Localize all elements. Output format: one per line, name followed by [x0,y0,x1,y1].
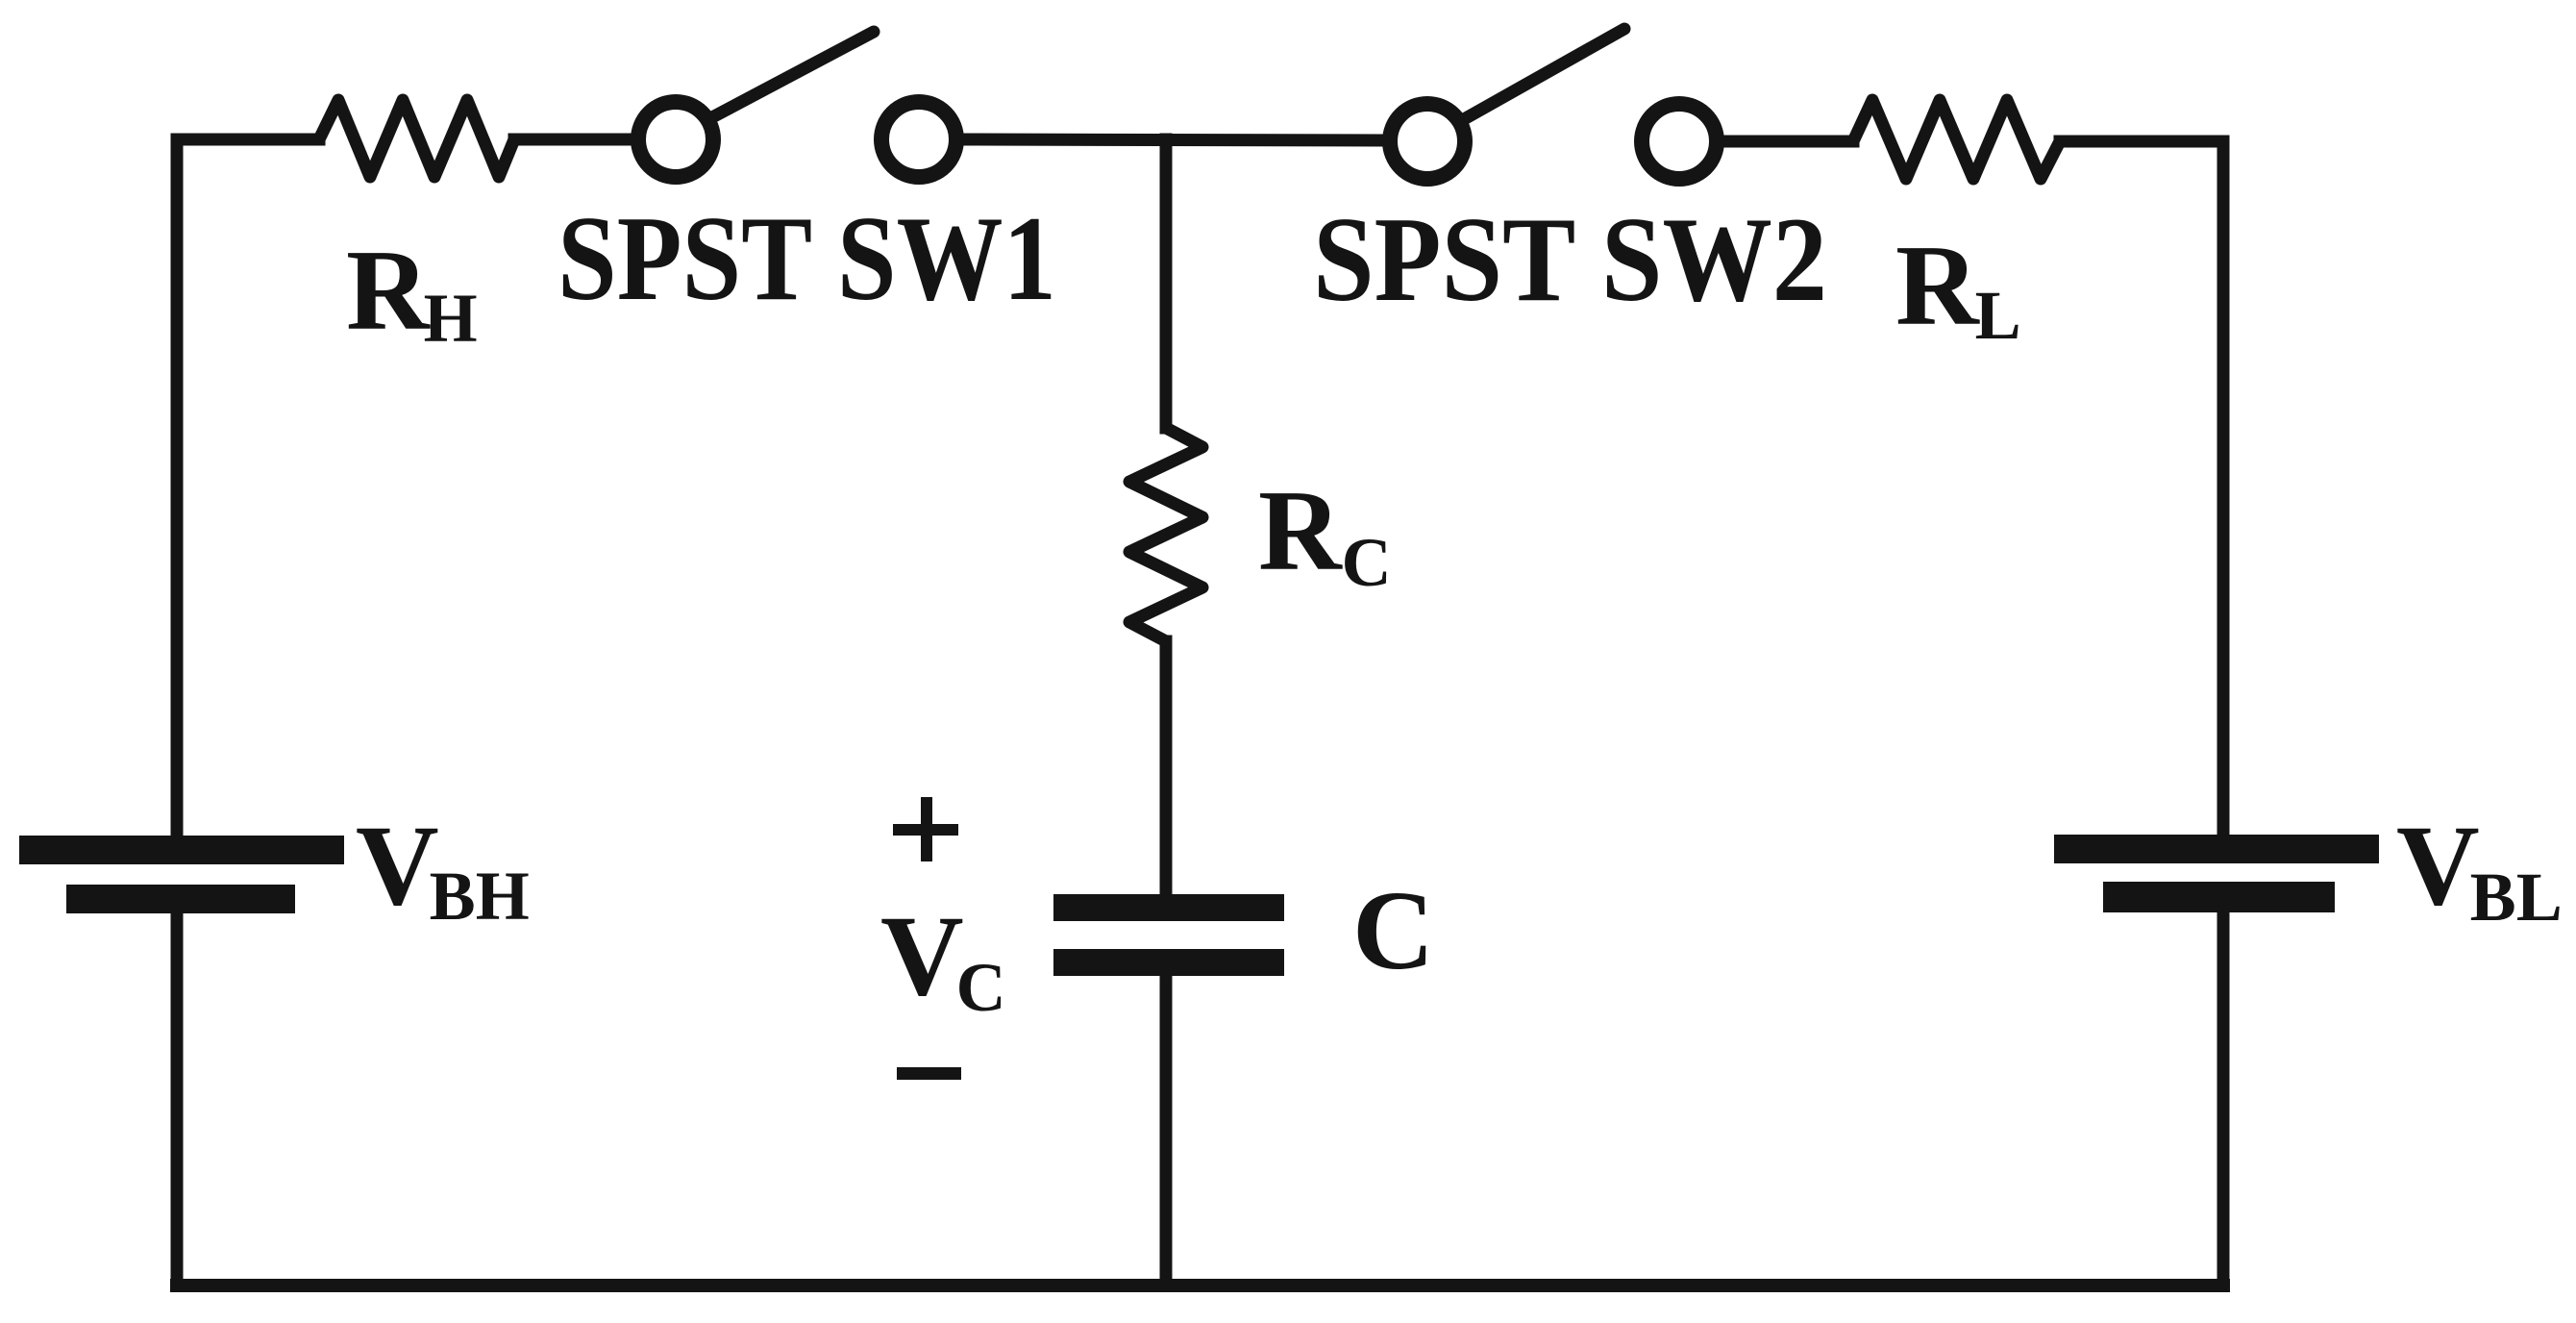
svg-text:SPST SW2: SPST SW2 [1313,193,1827,327]
wire SW2 to RL [1721,136,1853,148]
wire SW1 to SW2 through node [961,139,1385,140]
capacitor C plate bottom [1053,949,1284,976]
wire RH to SW1 [514,134,634,146]
wire bottom horizontal [177,1279,2223,1292]
resistor RC [1129,428,1202,641]
wire right vertical lower [2217,912,2230,1286]
wire left vertical upper [177,139,319,836]
switch SW2 lever [1464,29,1624,119]
switch SW2 left terminal [1390,104,1465,179]
battery VBL plate top [2054,835,2379,863]
label minus sign [897,1067,961,1080]
capacitor C plate top [1053,894,1284,921]
wire RL to right corner and right vertical upper [2060,141,2223,835]
wire middle vertical upper [1160,139,1173,428]
battery VBH plate bottom [66,885,295,913]
switch SW1 left terminal [638,102,713,177]
switch SW1 lever [712,32,874,117]
resistor RL [1853,100,2060,179]
battery VBH plate top [19,836,344,864]
wire capacitor to bottom [1160,974,1173,1286]
switch SW1 right terminal [881,102,956,177]
svg-text:C: C [1352,867,1434,993]
battery VBL plate bottom [2103,882,2335,912]
switch SW2 right terminal [1642,104,1717,179]
wire left vertical lower [171,913,184,1286]
wire RC to capacitor [1160,641,1173,896]
svg-text:SPST SW1: SPST SW1 [557,192,1056,326]
resistor RH [319,100,514,177]
label plus sign [893,797,958,861]
